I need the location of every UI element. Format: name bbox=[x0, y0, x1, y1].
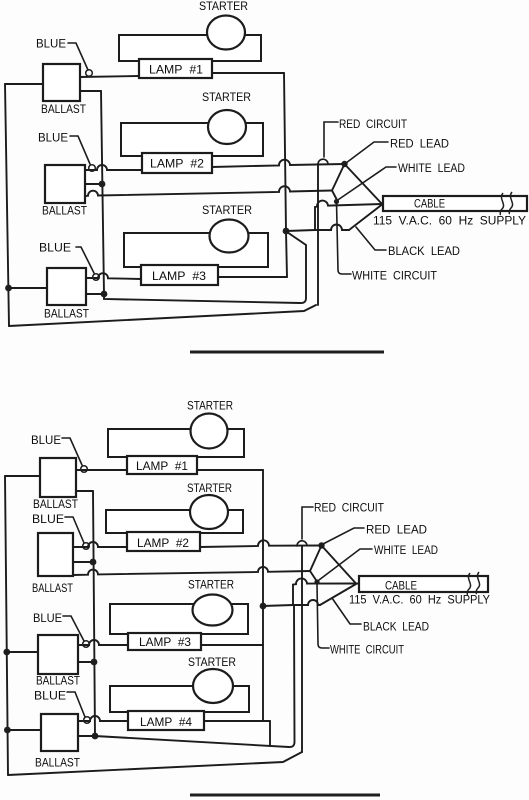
svg-text:LAMP #1: LAMP #1 bbox=[149, 65, 203, 77]
wire: ballast common run to riser V1 bbox=[104, 232, 306, 303]
svg-text:BALLAST: BALLAST bbox=[41, 104, 86, 116]
svg-text:STARTER: STARTER bbox=[202, 205, 252, 217]
wire: ballast B2 blue lead to lamp 2 (hops riser) bbox=[85, 165, 142, 170]
lamp tube box LAMP #2 bbox=[142, 153, 212, 173]
svg-text:STARTER: STARTER bbox=[188, 580, 234, 592]
svg-text:BLUE: BLUE bbox=[36, 39, 66, 51]
ballast box B1 (bottom) bbox=[40, 458, 76, 497]
wire: red node diagonal to white wire end bbox=[332, 164, 345, 191]
wire: lamp 3 right lead bbox=[218, 276, 287, 278]
svg-text:STARTER: STARTER bbox=[187, 401, 233, 413]
wire: ballast B3 middle stub bbox=[86, 293, 104, 295]
wire: ballast B3 blue lead to lamp 3 (hops riser) bbox=[86, 273, 141, 279]
wire: ballast common riser (B1-B2-B3 chain) bbox=[101, 91, 104, 294]
starter circle S1 (bottom) bbox=[191, 414, 228, 449]
wire: lamp 3 right lead (bottom) bbox=[201, 644, 263, 646]
wire: red-circuit drop riser V2 bbox=[317, 164, 319, 305]
node: riser to ballast B2 junction bbox=[99, 181, 106, 188]
wire: black node to trapezoid corner (bottom) bbox=[263, 605, 293, 606]
svg-text:BLUE: BLUE bbox=[38, 133, 68, 145]
svg-text:WHITE LEAD: WHITE LEAD bbox=[398, 163, 465, 175]
starter circle S2 (bottom) bbox=[190, 495, 228, 529]
label BLUE (B1) leader bbox=[68, 43, 88, 70]
wire: red lead into cable apex bbox=[345, 164, 383, 204]
starter circle S2 bbox=[208, 110, 246, 144]
wire: black lead bottom edge (hops white-circuit leader) bbox=[315, 225, 349, 230]
label BLUE (B2) leader bbox=[70, 136, 90, 164]
wire: white wire drop to white node bbox=[332, 191, 337, 200]
wire: ballast B3 left lead bbox=[9, 287, 48, 289]
wire: ballast B3 left lead (bottom) bbox=[6, 651, 38, 653]
wire: lamp 1 right lead (bottom) bbox=[197, 469, 263, 471]
svg-text:115 V.A.C. 60 Hz SUPPLY: 115 V.A.C. 60 Hz SUPPLY bbox=[373, 216, 526, 228]
wire: ballast B4 left lead (bottom) bbox=[6, 729, 41, 731]
wire: white circuit from ballast B2 to junction (hops riser and lamp-1 drop) bbox=[85, 186, 332, 196]
hop: leader onto red wire bbox=[318, 159, 328, 164]
ballast box B2 bbox=[45, 165, 85, 203]
wire: black lead trapezoid left edge bbox=[314, 207, 316, 230]
lamp tube box LAMP #3 bbox=[141, 265, 218, 285]
node: riser to ballast B3 (bottom) bbox=[91, 659, 98, 666]
wire: red circuit from lamp 2 to red node (hops lamp-1 drop) bbox=[212, 160, 344, 167]
node: white lead junction (bottom) bbox=[314, 579, 319, 584]
wire: ballast B1 lower stub (bottom) bbox=[76, 490, 93, 492]
wire: white lead top edge to cable apex (hops red riser, bottom) bbox=[293, 578, 359, 584]
node: red circuit junction (bottom) bbox=[318, 542, 324, 548]
node: black circuit junction bbox=[283, 228, 290, 235]
wire: ballast B3 middle stub (bottom) bbox=[78, 661, 94, 663]
wire: lamp 4 right lead (bottom) bbox=[204, 720, 270, 722]
wire: ballast B1 lower stub to common riser bbox=[80, 90, 101, 92]
svg-text:BLACK LEAD: BLACK LEAD bbox=[363, 622, 429, 634]
blue wire loop mark B1 bbox=[86, 70, 93, 77]
label BLUE (B3 bottom) leader bbox=[63, 616, 84, 641]
svg-text:BLUE: BLUE bbox=[39, 243, 71, 255]
starter loop rectangle S2 (bottom) bbox=[106, 510, 243, 533]
hop: leader onto red wire (bottom) bbox=[297, 541, 307, 546]
label BLUE (B1 bottom) leader bbox=[62, 438, 82, 465]
starter loop rectangle S3 (bottom) bbox=[110, 604, 248, 634]
blue wire loop mark B3 (bottom) bbox=[83, 641, 90, 648]
svg-text:BALLAST: BALLAST bbox=[42, 206, 87, 218]
starter loop rectangle S3 bbox=[124, 233, 268, 267]
svg-text:STARTER: STARTER bbox=[188, 657, 236, 669]
lamp tube box LAMP #3 (bottom) bbox=[128, 633, 201, 650]
separator rule under top diagram bbox=[190, 351, 384, 354]
svg-text:BLUE: BLUE bbox=[32, 514, 64, 526]
wire: red node diagonal to white wire end (bottom) bbox=[310, 546, 322, 572]
wire: ballast B1 left lead (bottom) bbox=[5, 475, 40, 477]
wire: left supply bus bbox=[5, 84, 9, 326]
wire: lamp 4 drop to common run (bottom) bbox=[269, 721, 271, 746]
label BLUE (B2 bottom) leader bbox=[65, 517, 84, 543]
node: riser to ballast B3 junction bbox=[101, 291, 108, 298]
node: left bus to ballast B4 (bottom) bbox=[4, 727, 11, 734]
starter circle S4 (bottom) bbox=[193, 669, 233, 703]
cable break squiggle bbox=[500, 193, 504, 215]
svg-text:BALLAST: BALLAST bbox=[32, 583, 73, 595]
wire: bottom bus to red riser (bottom) bbox=[8, 752, 302, 775]
cable box bbox=[383, 196, 527, 211]
cable box (bottom) bbox=[359, 576, 488, 592]
lamp tube box LAMP #4 (bottom) bbox=[128, 711, 204, 730]
svg-text:RED LEAD: RED LEAD bbox=[390, 139, 449, 151]
svg-text:BALLAST: BALLAST bbox=[44, 309, 89, 321]
wire: white wire drop to white node (bottom) bbox=[310, 571, 316, 580]
separator rule under bottom diagram bbox=[190, 794, 380, 797]
wire: lamp 1 drop to black node bbox=[284, 73, 286, 231]
wire: black node down to lamp 3 lead bbox=[286, 231, 287, 277]
wire: white lead top edge to cable apex (hops riser V2) bbox=[315, 201, 384, 207]
node: left bus to ballast B3 junction bbox=[5, 285, 12, 292]
blue wire loop mark B1 (bottom) bbox=[81, 466, 88, 473]
ballast box B3 (bottom) bbox=[38, 635, 78, 674]
label WHITE CIRCUIT leader bbox=[337, 202, 352, 274]
wire: ballast B2 blue lead to lamp 2 (hops riser, bottom) bbox=[73, 542, 127, 547]
wire: lamp 1 drop to black node (bottom) bbox=[262, 470, 264, 606]
wire: black lead diagonal to cable apex bbox=[349, 205, 382, 231]
label BLACK LEAD leader bbox=[356, 227, 386, 250]
svg-text:BALLAST: BALLAST bbox=[35, 758, 80, 770]
wire: black node down to lamp 3 lead (bottom) bbox=[262, 606, 264, 645]
svg-text:LAMP #3: LAMP #3 bbox=[139, 637, 191, 649]
label WHITE LEAD leader (bottom) bbox=[319, 549, 372, 580]
svg-text:WHITE CIRCUIT: WHITE CIRCUIT bbox=[352, 271, 437, 283]
svg-text:LAMP #3: LAMP #3 bbox=[152, 271, 206, 283]
svg-text:BALLAST: BALLAST bbox=[33, 499, 78, 511]
node: riser to ballast B2 (bottom) bbox=[90, 559, 97, 566]
svg-text:STARTER: STARTER bbox=[199, 1, 248, 13]
ballast box B1 bbox=[43, 64, 80, 101]
wire: white circuit from ballast B2 (hops riser and lamp-1 drop, bottom) bbox=[73, 567, 310, 575]
wire: ballast common riser chain (bottom) bbox=[93, 491, 95, 736]
wire: black node to trapezoid corner bbox=[286, 230, 315, 231]
starter circle S3 (bottom) bbox=[193, 595, 233, 626]
label RED LEAD leader bbox=[346, 142, 388, 163]
wire: ballast B1 blue lead to lamp 1 bbox=[80, 76, 139, 77]
svg-text:115 V.A.C. 60 Hz SUPPLY: 115 V.A.C. 60 Hz SUPPLY bbox=[349, 595, 490, 607]
wire: bottom bus from left bus to right riser (white circuit return) bbox=[9, 305, 316, 326]
ballast box B4 (bottom) bbox=[41, 714, 78, 751]
cable break squiggle (bottom) bbox=[467, 573, 471, 595]
starter loop rectangle S1 bbox=[119, 35, 261, 61]
label BLACK LEAD leader (bottom) bbox=[332, 598, 361, 624]
wire: ballast common run to trapezoid riser (bottom) bbox=[95, 606, 295, 747]
svg-text:BLUE: BLUE bbox=[33, 613, 62, 625]
lamp tube box LAMP #1 (bottom) bbox=[127, 456, 197, 474]
wire: ballast B3 blue lead to lamp 3 (hops riser, bottom) bbox=[78, 640, 128, 645]
label WHITE LEAD leader bbox=[339, 167, 397, 200]
wire: ballast B1 blue lead to lamp 1 (bottom) bbox=[76, 469, 127, 471]
svg-text:CABLE: CABLE bbox=[414, 199, 445, 211]
wire: black lead bottom edge (hops white-circuit leader, bottom) bbox=[293, 600, 320, 605]
node: riser to ballast B4 (bottom) bbox=[92, 733, 99, 740]
label BLUE (B4 bottom) leader bbox=[67, 692, 85, 717]
label RED LEAD leader (bottom) bbox=[323, 528, 364, 544]
lamp tube box LAMP #2 (bottom) bbox=[127, 532, 200, 551]
node: white lead junction bbox=[334, 199, 339, 204]
ballast box B2 (bottom) bbox=[38, 533, 73, 576]
svg-text:BLUE: BLUE bbox=[34, 691, 66, 703]
wire: ballast B2 middle stub (bottom) bbox=[73, 561, 93, 563]
svg-text:RED CIRCUIT: RED CIRCUIT bbox=[339, 119, 407, 131]
lamp tube box LAMP #1 bbox=[139, 59, 212, 78]
label RED CIRCUIT leader (bottom) bbox=[302, 507, 313, 539]
svg-text:WHITE CIRCUIT: WHITE CIRCUIT bbox=[330, 645, 404, 657]
node: red circuit junction bbox=[341, 161, 347, 167]
blue wire loop mark B2 bbox=[89, 165, 96, 172]
wire: drop continues to lamp 4 lead (bottom) bbox=[262, 645, 264, 721]
wire: red circuit from lamp 2 to red node (hops lamp-1 drop, bottom) bbox=[200, 540, 321, 547]
starter loop rectangle S1 (bottom) bbox=[108, 429, 244, 457]
svg-text:LAMP #1: LAMP #1 bbox=[136, 461, 188, 473]
svg-text:STARTER: STARTER bbox=[187, 483, 232, 495]
starter loop rectangle S4 (bottom) bbox=[110, 686, 249, 712]
svg-text:BLACK LEAD: BLACK LEAD bbox=[388, 246, 460, 258]
wire: black lead trapezoid left edge (bottom) bbox=[292, 585, 294, 605]
wire: left supply bus (bottom) bbox=[5, 476, 8, 775]
ballast box B3 bbox=[47, 268, 86, 305]
wire: lamp 1 right lead bbox=[212, 72, 284, 74]
blue wire loop mark B3 bbox=[93, 274, 100, 281]
svg-text:RED CIRCUIT: RED CIRCUIT bbox=[314, 503, 384, 515]
wire: ballast B2 middle stub bbox=[85, 183, 102, 185]
label WHITE CIRCUIT leader (bottom) bbox=[317, 584, 329, 649]
wire: black lead diagonal to cable apex (bottom) bbox=[320, 584, 356, 605]
wire: ballast B1 left lead bbox=[5, 83, 43, 85]
wire: ballast B4 middle stub (bottom) bbox=[78, 735, 95, 737]
svg-text:LAMP #4: LAMP #4 bbox=[140, 717, 193, 729]
node: black circuit junction (bottom) bbox=[260, 603, 267, 610]
svg-text:STARTER: STARTER bbox=[202, 92, 251, 104]
svg-text:WHITE LEAD: WHITE LEAD bbox=[374, 545, 438, 557]
svg-text:BLUE: BLUE bbox=[31, 435, 61, 447]
wire: red-circuit drop riser (bottom) bbox=[301, 546, 303, 752]
svg-text:LAMP #2: LAMP #2 bbox=[137, 538, 189, 550]
svg-text:LAMP #2: LAMP #2 bbox=[150, 159, 204, 171]
wire: ballast B4 blue lead to lamp 4 (hops riser, bottom) bbox=[78, 716, 128, 721]
svg-text:BALLAST: BALLAST bbox=[36, 676, 80, 688]
blue wire loop mark B4 (bottom) bbox=[84, 717, 91, 724]
blue wire loop mark B2 (bottom) bbox=[83, 543, 90, 550]
wire: red lead into cable apex (bottom) bbox=[322, 546, 357, 584]
label RED CIRCUIT leader bbox=[324, 122, 338, 157]
svg-text:CABLE: CABLE bbox=[385, 581, 417, 593]
starter loop rectangle S2 bbox=[121, 123, 263, 156]
svg-text:RED LEAD: RED LEAD bbox=[366, 525, 427, 537]
starter circle S3 bbox=[210, 220, 249, 253]
node: left bus to ballast B3 (bottom) bbox=[3, 649, 10, 656]
starter circle S1 bbox=[207, 16, 245, 50]
label BLUE (B3) leader bbox=[76, 247, 94, 273]
